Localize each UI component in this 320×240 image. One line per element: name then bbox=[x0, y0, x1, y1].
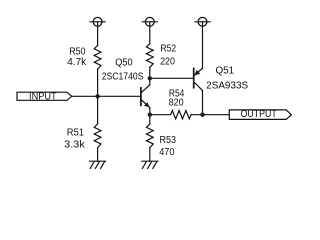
svg-text:220: 220 bbox=[160, 57, 175, 68]
resistor R50 bbox=[94, 46, 101, 70]
wire INPUT to Q50 base bbox=[72, 95, 141, 97]
wire Q50 emitter node to R54 bbox=[150, 114, 171, 116]
node output (junction dot) bbox=[200, 113, 204, 117]
resistor R52 bbox=[146, 44, 153, 68]
wire Q51 collector to output node bbox=[202, 91, 204, 115]
svg-text:INPUT: INPUT bbox=[29, 91, 57, 102]
svg-text:3.3k: 3.3k bbox=[64, 140, 85, 151]
svg-text:Q51: Q51 bbox=[216, 65, 235, 76]
svg-text:R50: R50 bbox=[69, 46, 86, 57]
svg-text:4.7k: 4.7k bbox=[67, 57, 86, 68]
port flag INPUT bbox=[17, 92, 72, 100]
wire P3 to Q51 emitter bbox=[202, 26, 204, 68]
node J1 (junction dot) bbox=[148, 76, 152, 80]
wire R50 to input node bbox=[97, 69, 99, 96]
svg-text:R52: R52 bbox=[161, 44, 177, 55]
transistor Q50 bbox=[141, 78, 150, 114]
resistor R54 bbox=[171, 111, 191, 119]
svg-text:R53: R53 bbox=[160, 135, 177, 146]
svg-text:2SA933S: 2SA933S bbox=[206, 81, 248, 92]
transistor Q51 bbox=[194, 68, 203, 90]
wire R51 to ground bbox=[97, 148, 99, 162]
resistor R53 bbox=[146, 124, 153, 148]
power symbol P2 bbox=[142, 17, 157, 26]
svg-text:R51: R51 bbox=[67, 128, 84, 139]
node input (junction dot) bbox=[95, 94, 99, 98]
ground G2 bbox=[142, 161, 158, 168]
svg-text:2SC1740S: 2SC1740S bbox=[102, 71, 144, 82]
svg-text:Q50: Q50 bbox=[115, 58, 133, 69]
wire input node to R51 bbox=[97, 96, 99, 124]
wire P1 to R50 bbox=[97, 26, 99, 45]
ground G1 bbox=[90, 161, 106, 168]
svg-text:470: 470 bbox=[159, 147, 175, 158]
node emitter Q50 (junction dot) bbox=[148, 113, 152, 117]
wire R54 to output node bbox=[191, 114, 229, 116]
svg-text:OUTPUT: OUTPUT bbox=[241, 109, 277, 120]
wire R52 to node J1 bbox=[149, 67, 151, 78]
svg-text:820: 820 bbox=[169, 98, 184, 109]
wire R53 to ground bbox=[149, 148, 151, 162]
wire Q50 emitter node to R53 bbox=[149, 115, 151, 124]
wire node J1 to Q51 base bbox=[150, 77, 194, 79]
port flag OUTPUT bbox=[229, 110, 291, 120]
power symbol P3 bbox=[195, 17, 210, 26]
resistor R51 bbox=[94, 124, 101, 148]
wire P2 to R52 bbox=[149, 26, 151, 44]
power symbol P1 bbox=[90, 17, 105, 26]
